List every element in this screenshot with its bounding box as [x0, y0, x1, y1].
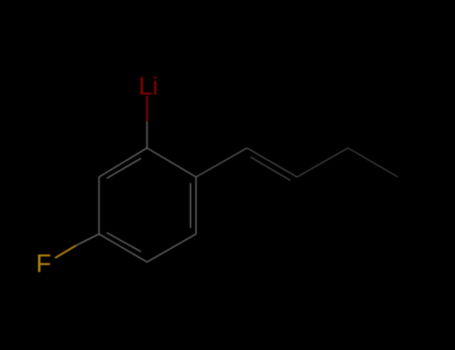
chain bond C8-C9: [297, 148, 348, 177]
ring double bond inner line C6=C1 (upper-left): [107, 158, 142, 178]
svg-text:F: F: [36, 250, 51, 278]
bond C5-F fluorine half (dark goldenrod): [55, 246, 76, 259]
chain bond C2-C7: [196, 148, 247, 177]
ring double bond inner line C2=C3 (right): [190, 183, 192, 228]
ring double bond inner line C4=C5 (lower-left): [107, 233, 142, 252]
chain double bond C7=C8 inner line: [251, 157, 291, 181]
bond C1-Li carbon half (gray): [146, 122, 148, 148]
chain bond C7-C8 (double, main line): [247, 148, 297, 177]
bond C1-Li lithium half (dark red): [146, 96, 148, 122]
benzene ring C1-C6: [99, 148, 196, 262]
bond C5-F carbon half (gray): [76, 234, 99, 246]
chain bond C9-C10: [348, 148, 398, 177]
svg-text:Li: Li: [139, 73, 158, 101]
